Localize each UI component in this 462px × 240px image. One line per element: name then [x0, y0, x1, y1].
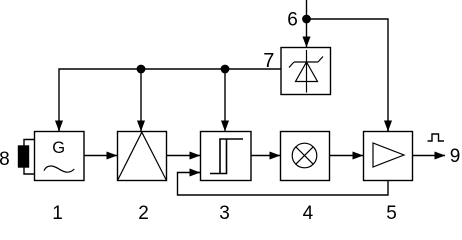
label 5 [386, 203, 397, 224]
svg-text:G: G [52, 139, 65, 157]
svg-text:5: 5 [386, 203, 397, 222]
feedback wire box5 to box3 [178, 173, 389, 196]
node 6 input wire [306, 0, 308, 47]
wire drop to block 3 [224, 69, 226, 131]
block 5 box (amplifier) [364, 132, 413, 181]
wire box3 to box4 [251, 155, 280, 157]
junction dot node 6 [302, 15, 311, 24]
svg-text:4: 4 [303, 203, 314, 222]
block 3 box (schmitt trigger) [201, 132, 252, 181]
label 9 [450, 146, 461, 167]
wire drop to block 2 [140, 69, 142, 131]
schmitt hysteresis symbol [210, 139, 243, 174]
crystal resonator 8 connection wires [24, 140, 35, 175]
junction dot on bus at block3 [221, 65, 230, 74]
label 7 [263, 50, 274, 72]
wire node6 to block 5 [307, 19, 389, 131]
block 2 triangle symbol [118, 132, 167, 180]
svg-text:3: 3 [219, 203, 230, 222]
block 4 box (mixer) [281, 132, 330, 181]
svg-text:2: 2 [138, 203, 149, 222]
block 1 box (generator) [35, 132, 85, 181]
label 8 [0, 149, 10, 170]
svg-text:6: 6 [287, 9, 298, 30]
label 3 [219, 203, 230, 224]
svg-text:9: 9 [450, 146, 461, 167]
label 2 [138, 203, 149, 224]
svg-text:1: 1 [52, 203, 63, 222]
svg-text:8: 8 [0, 149, 10, 170]
feedback arrow into block 3 [190, 172, 200, 174]
label 6 [287, 9, 298, 30]
generator sine wave [44, 166, 74, 172]
block 7 box (zener limiter) [281, 48, 331, 95]
generator letter G [52, 139, 65, 157]
label 1 [52, 203, 63, 224]
output pulse symbol [428, 134, 445, 141]
label 4 [303, 203, 314, 224]
mixer circle [292, 143, 317, 168]
amplifier triangle [373, 143, 404, 167]
arrow into block 5 top [387, 120, 389, 131]
junction dot on bus at block2 [137, 65, 146, 74]
wire box4 to box5 [330, 155, 364, 157]
zener diode symbol [289, 50, 323, 93]
arrow into block 1 [58, 120, 60, 131]
block 2 box (shaper) [118, 132, 167, 181]
output wire from box5 [413, 155, 446, 157]
wire box2 to box3 [167, 155, 201, 157]
mixer X cross [296, 147, 313, 164]
wire box1 to box2 [84, 155, 117, 157]
top control bus wire [59, 69, 281, 131]
crystal resonator 8 body [19, 146, 29, 167]
